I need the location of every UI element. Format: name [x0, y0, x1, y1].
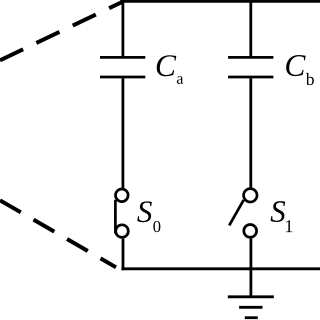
wire left branch top [122, 1, 125, 56]
capacitor Cb top plate [228, 56, 273, 59]
ground bar 1 [228, 295, 274, 298]
label Cb sub 'b' [306, 73, 314, 85]
capacitor Ca top plate [100, 56, 145, 59]
wire bottom rail [121, 267, 320, 270]
wire top rail [120, 0, 320, 3]
label Ca 'C' [157, 55, 176, 76]
wire left branch middle [122, 78, 125, 188]
dashed leader line lower [0, 200, 116, 267]
switch S0 top contact [116, 189, 129, 202]
switch S1 top contact [244, 189, 257, 202]
switch S0 lever [114, 200, 117, 234]
wire right branch bottom [249, 239, 252, 296]
label S0 sub '0' [153, 221, 160, 232]
switch S1 lever [229, 200, 244, 226]
label S1 sub '1' [286, 220, 292, 232]
label S0 'S' [137, 201, 152, 222]
label S1 'S' [271, 201, 286, 222]
capacitor Ca bottom plate [100, 76, 145, 79]
wire right branch middle [249, 78, 252, 187]
label Ca sub 'a' [177, 76, 183, 84]
wire left branch bottom [122, 239, 125, 271]
label Cb 'C' [286, 55, 305, 76]
dashed leader line upper [0, 2, 122, 60]
capacitor Cb bottom plate [228, 76, 273, 79]
ground bar 3 [245, 316, 258, 319]
wire right branch top [249, 1, 252, 56]
switch S0 bottom contact [116, 225, 129, 238]
switch S1 bottom contact [244, 225, 257, 238]
ground bar 2 [239, 306, 262, 309]
